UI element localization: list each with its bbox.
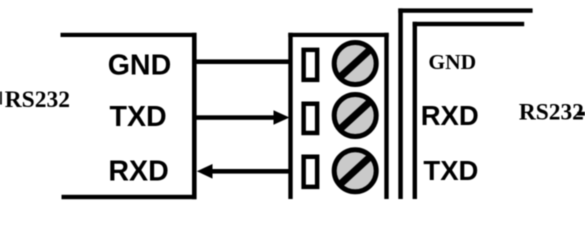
svg-text:TXD: TXD <box>423 155 478 186</box>
wire: left box top edge <box>61 33 197 37</box>
screw 1 (slotted screw head) <box>334 43 376 85</box>
terminal block top edge <box>288 33 388 37</box>
terminal block outline <box>288 33 388 199</box>
svg-text:TXD: TXD <box>110 101 167 133</box>
svg-text:RXD: RXD <box>421 100 479 131</box>
terminal block left edge <box>288 33 292 199</box>
screw 3 (slotted screw head) <box>334 150 376 192</box>
wire: left box right edge <box>192 33 197 199</box>
terminal slot 1 (wire entry) <box>304 50 318 80</box>
wire: TXD net with right-pointing arrow into terminal <box>197 110 290 125</box>
svg-text:RS232: RS232 <box>519 99 584 125</box>
wire: inner top edge <box>413 22 525 26</box>
right device box inner corner <box>413 22 525 199</box>
terminal block right edge <box>384 33 388 199</box>
left device box (RS232 side, open left) <box>61 33 197 199</box>
wire: inner vertical edge <box>413 22 417 199</box>
svg-text:GND: GND <box>428 50 476 74</box>
terminal slot 2 (wire entry) <box>304 104 318 133</box>
wire: RXD net with left-pointing arrow into left box <box>197 164 291 179</box>
svg-text:RS232: RS232 <box>5 87 70 113</box>
terminal slot 3 (wire entry) <box>304 157 318 187</box>
label RS232 (left device) <box>0 87 70 113</box>
screw 2 (slotted screw head) <box>334 95 376 137</box>
wire: outer top edge <box>398 8 532 12</box>
label RS232- (right device, clipped at edge) <box>519 99 585 125</box>
wire: GND net (left box to terminal block) <box>197 59 291 64</box>
svg-text:RXD: RXD <box>108 155 168 187</box>
clipped glyph sliver at left edge <box>0 92 2 105</box>
svg-text:GND: GND <box>108 49 172 81</box>
right device box outer corner (RS232- side) <box>398 8 532 199</box>
wire: outer vertical edge <box>398 8 403 199</box>
wire: left box bottom edge <box>62 195 197 199</box>
